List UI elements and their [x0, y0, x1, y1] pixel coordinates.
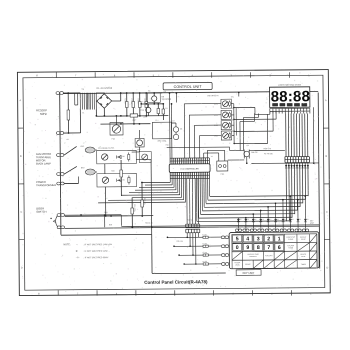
svg-text:C: C: [326, 211, 328, 214]
RY1 drive transistor box: [97, 150, 137, 164]
svg-text:R20: R20: [104, 212, 107, 214]
digit drive transistor TR2: [222, 112, 228, 118]
svg-text:R24 4.7k: R24 4.7k: [145, 222, 152, 224]
svg-text:1S: 1S: [277, 219, 279, 221]
digit line 1 to display pin: [234, 106, 255, 108]
svg-text:R10: R10: [166, 144, 169, 146]
segment resistor array R1-R9: [285, 156, 310, 162]
svg-text:LIGHT EMITTING DIODE: LIGHT EMITTING DIODE: [278, 84, 302, 86]
svg-text:IC1 CONTROLLER: IC1 CONTROLLER: [181, 169, 200, 171]
key sense row 3: [179, 254, 222, 256]
diode D25: [275, 218, 277, 223]
svg-text:TR2: TR2: [231, 108, 234, 110]
key resistor array two bands: [186, 224, 200, 228]
svg-text:R1~R9 220: R1~R9 220: [264, 153, 273, 155]
bridge rectifier D1-D4: [97, 94, 112, 109]
digit line 4 to display pin: [234, 142, 267, 144]
capacitor C2: [132, 93, 134, 116]
key digits row 1: 5 4 3 2 1: [233, 235, 242, 242]
wire bridge bottom output: [103, 108, 105, 116]
RY1 emitter to gnd rail: [104, 164, 106, 174]
svg-text:7: 7: [267, 245, 270, 251]
digit drive transistor TR3 box: [221, 121, 231, 130]
digit drive transistor TR1 box: [221, 99, 231, 108]
svg-text:→: →: [75, 243, 77, 246]
switch diode D6 box: [148, 93, 161, 103]
RY2 emitter to gnd: [105, 187, 107, 216]
varistor across AC line: [67, 93, 69, 133]
ceramic filter CF1: [217, 161, 228, 171]
resistor R2: [145, 93, 147, 116]
key row connector: [221, 263, 225, 266]
transistor TR4 box: [135, 138, 144, 147]
svg-text:: IF NOT SPECIFIED 50WV: : IF NOT SPECIFIED 50WV: [84, 257, 109, 259]
base resistor inside box: [229, 132, 231, 138]
svg-text:9: 9: [246, 245, 249, 251]
svg-text:C7: C7: [172, 120, 174, 122]
inner sheet border: [23, 75, 325, 290]
wire display right down: [312, 107, 314, 163]
svg-text:R 100: R 100: [203, 252, 207, 254]
svg-text:START: START: [245, 263, 250, 266]
wire RY2 terminal lower: [64, 182, 78, 184]
KEY UNIT label: [236, 270, 261, 276]
svg-text:R40~44: R40~44: [187, 219, 193, 221]
svg-text:ZD1: ZD1: [143, 116, 146, 118]
svg-text:D: D: [326, 266, 328, 269]
RY1 resistor in box: [128, 153, 130, 162]
power-on transistor TR8: [228, 159, 244, 161]
svg-text:: IF NOT SPECIFIED 1/2W: : IF NOT SPECIFIED 1/2W: [84, 251, 108, 253]
segment diode row below array: [285, 165, 287, 168]
svg-text:MINUTE: MINUTE: [300, 254, 306, 256]
svg-text:L1: L1: [155, 120, 157, 122]
osc caps C7 C8: [173, 127, 178, 132]
RY2 resistor in box: [128, 176, 130, 185]
svg-text:⊣⊢: ⊣⊢: [76, 255, 80, 259]
display pin row: [270, 108, 310, 111]
diode D27: [290, 218, 292, 223]
key row connector: [221, 236, 225, 239]
svg-text:8: 8: [257, 245, 260, 251]
key row resistor: [203, 236, 208, 238]
IC1 bottom pin hatch: [170, 172, 209, 179]
svg-text:C13 470µ: C13 470µ: [133, 204, 135, 212]
digit drive transistor TR1: [222, 101, 228, 107]
svg-text:COMP.STOP: COMP.STOP: [286, 237, 295, 239]
cap C4 near reset: [162, 104, 164, 120]
outer sheet border: [17, 70, 330, 296]
wire T1 primary bottom: [64, 132, 81, 134]
transistor box right of RY1: [139, 151, 151, 162]
svg-text:Control Panel Circuit(R-4A78): Control Panel Circuit(R-4A78): [144, 279, 208, 285]
RY1 protect diode: [117, 155, 122, 158]
svg-text:C2 16V: C2 16V: [130, 99, 132, 106]
wire TR8 to right boundary: [251, 162, 318, 165]
digit transistor collector rails: [233, 104, 235, 144]
svg-text:4: 4: [246, 236, 249, 242]
svg-text:TR1: TR1: [231, 96, 234, 98]
svg-text:50Hz: 50Hz: [40, 112, 47, 116]
svg-text:C3: C3: [164, 91, 166, 93]
scan speckle noise: [217, 77, 220, 80]
svg-text:R30 10k: R30 10k: [143, 198, 145, 205]
svg-text:1S: 1S: [262, 219, 264, 221]
key sense row 1: [167, 236, 221, 238]
switch diode D6: [152, 96, 157, 101]
dc rail top: [121, 92, 162, 94]
wires around D6: [153, 93, 155, 96]
key row connector: [221, 245, 225, 248]
svg-text:2: 2: [267, 236, 270, 242]
svg-text:RY1 DRIVE TR: RY1 DRIVE TR: [98, 148, 111, 150]
nested wires left of display: [239, 121, 241, 150]
svg-text:3: 3: [257, 236, 260, 242]
svg-text:R 100: R 100: [203, 261, 207, 263]
horizontal key scan lines: [210, 195, 308, 198]
svg-text:6: 6: [278, 245, 281, 251]
RY2 drive transistor: [102, 177, 108, 183]
control unit boundary bottom edge: [121, 225, 319, 227]
svg-text:CONTROL UNIT: CONTROL UNIT: [174, 85, 203, 89]
diode D21: [245, 218, 247, 223]
svg-text:PW ON: PW ON: [251, 152, 258, 154]
svg-text:POPCORN: POPCORN: [265, 255, 272, 257]
base resistor inside box: [229, 112, 231, 118]
relay RY2 contact: [64, 166, 77, 174]
oscillator block OSC: [152, 122, 171, 139]
display pins below ladder: [269, 111, 271, 113]
wire T1 secondary to bridge: [96, 92, 104, 94]
svg-text:RY2: RY2: [81, 167, 85, 169]
svg-text:DIG4: DIG4: [214, 104, 218, 106]
columns below array bending left into scan lines: [307, 163, 309, 196]
wire RY1 box right to key-unit drop: [136, 158, 151, 160]
svg-text:R 100: R 100: [202, 243, 206, 245]
svg-text:C: C: [20, 211, 22, 214]
cap C5: [157, 104, 159, 116]
digit drive transistor TR2 box: [221, 110, 231, 119]
svg-text:D8: D8: [122, 156, 124, 158]
wire coil to RY1 driver box: [95, 149, 97, 151]
border zone tick marks bottom: [57, 290, 59, 295]
IC1 leftmost top pins long verticals: [168, 93, 171, 158]
wire lower door switch long: [65, 226, 320, 228]
keypad connector ovals row: [235, 229, 238, 232]
svg-text:1S: 1S: [247, 219, 249, 221]
svg-text:COOKING TIME/: COOKING TIME/: [247, 254, 259, 256]
key sense row 2: [174, 245, 222, 247]
wire coil to RY2 driver box: [95, 171, 97, 173]
svg-text:C0: C0: [67, 139, 69, 141]
svg-text:KITCHEN: KITCHEN: [287, 245, 294, 247]
svg-text:TRANSFORMER: TRANSFORMER: [36, 183, 56, 187]
key row resistor: [203, 254, 208, 256]
IC1 bottom left pins fan going left: [169, 179, 171, 183]
svg-text:C4: C4: [165, 108, 167, 110]
rail above segment array: [249, 149, 285, 151]
base resistor inside box: [229, 122, 231, 128]
border zone tick marks left/right: [18, 127, 23, 129]
power sw transistor TR7 box: [110, 122, 123, 135]
svg-text:OVEN LAMP: OVEN LAMP: [36, 161, 51, 165]
svg-text:RY1: RY1: [81, 146, 85, 148]
relay RY1 coil: [85, 147, 95, 153]
svg-text:F1: F1: [82, 112, 84, 114]
svg-text:D: D: [21, 266, 23, 269]
svg-text:0: 0: [236, 245, 239, 251]
power sw transistor TR7: [112, 125, 120, 133]
svg-text:R21: R21: [111, 147, 114, 149]
svg-text:C8: C8: [180, 128, 182, 130]
key digits row 2: 0 9 8 7 6: [233, 244, 242, 251]
indicator labels row inside display: [272, 103, 277, 106]
svg-text:1S: 1S: [269, 219, 271, 221]
CONTROL UNIT label box: [163, 82, 212, 89]
svg-text:D9: D9: [122, 179, 124, 181]
svg-text:D16: D16: [109, 224, 112, 226]
diode D22: [252, 218, 254, 223]
key row1 fn cells: [296, 234, 298, 243]
svg-text:DIG1: DIG1: [214, 135, 218, 137]
svg-text:DIG DRIVE TR: DIG DRIVE TR: [207, 95, 219, 97]
connector AC line return terminal: [56, 132, 60, 135]
dc rail mid: [96, 115, 168, 118]
long vertical to bottom wire: [150, 159, 153, 234]
connector power transformer terminal: [57, 182, 61, 185]
nested wires IC top pins to digit transistors: [183, 104, 185, 158]
svg-text:F2G: F2G: [112, 138, 116, 140]
border zone tick marks top: [55, 72, 57, 77]
IC1 top pin hatch: [170, 158, 209, 165]
door switch wires: [65, 214, 122, 216]
svg-text:KEY UNIT: KEY UNIT: [243, 271, 255, 275]
zener D5: [139, 93, 141, 116]
svg-text:1S: 1S: [299, 219, 301, 221]
relay RY2 coil: [85, 169, 95, 175]
R30 resistor: [141, 182, 143, 215]
svg-text:X1: X1: [211, 156, 213, 158]
svg-text:5: 5: [236, 236, 239, 242]
digit line 2 to display pin: [234, 118, 276, 120]
reset transistor TR5: [146, 107, 151, 112]
svg-text:1S: 1S: [240, 219, 242, 221]
connector AC line terminal: [56, 92, 60, 95]
relay RY1 contact: [64, 146, 77, 155]
digit line 3 to display pin: [234, 130, 273, 132]
IC2 voltage regulator box: [130, 114, 137, 117]
diode D20: [237, 218, 239, 223]
key row 3: [232, 251, 243, 260]
connector relay RY2 output terminal: [57, 173, 61, 176]
svg-text:DIG3: DIG3: [214, 115, 218, 117]
IC1 bottom right pins to scan lines: [209, 178, 211, 196]
vertical cap between boxes and gnd: [120, 160, 122, 196]
svg-text:D1~D4 S2VB10: D1~D4 S2VB10: [97, 88, 113, 90]
key grid row lines: [232, 241, 317, 244]
IC right top pins to CF1: [203, 153, 205, 158]
diode D28: [297, 218, 299, 223]
svg-text:: IF NOT SPECIFIED 1/4W ±5%: : IF NOT SPECIFIED 1/4W ±5%: [84, 244, 113, 246]
gnd rail y216: [65, 215, 154, 218]
svg-text:TR9: TR9: [231, 119, 234, 121]
RY1 drive transistor: [102, 154, 108, 160]
key sense row 4: [184, 263, 222, 265]
svg-text:1S: 1S: [292, 219, 294, 221]
svg-text:R35 10k: R35 10k: [176, 241, 182, 243]
key row 4: [242, 260, 244, 268]
svg-text:R28 4.7k: R28 4.7k: [264, 148, 271, 150]
svg-text:OSC COIL: OSC COIL: [158, 141, 167, 143]
diode D23: [260, 218, 262, 223]
display outer box: [270, 87, 310, 108]
svg-text:R4: R4: [148, 90, 150, 92]
short verticals from top bus: [175, 93, 177, 102]
svg-text:R 100: R 100: [202, 234, 206, 236]
svg-text:DEFROST: DEFROST: [250, 256, 257, 258]
IC1 bottom middle pins down to key resistors: [186, 178, 188, 224]
wire bridge right output: [112, 100, 121, 102]
door switch arc: [56, 216, 58, 227]
svg-text:TR10: TR10: [231, 131, 235, 133]
IC1 controller body: [169, 164, 210, 173]
svg-text:R23: R23: [111, 170, 114, 172]
diode D24: [267, 218, 269, 223]
diode D26: [282, 218, 284, 223]
rail below regulator: [100, 123, 150, 125]
key row connector: [221, 254, 225, 257]
key row resistor: [203, 263, 208, 265]
RY2 drive transistor box: [97, 173, 137, 187]
key resistor columns to sense rows: [186, 233, 188, 237]
C13 electrolytic: [131, 197, 133, 227]
svg-text:TR5: TR5: [140, 110, 143, 112]
key grid outline: [232, 234, 317, 269]
digit drive transistor TR3: [223, 122, 229, 128]
connector door switch terminal lower: [57, 226, 61, 229]
svg-text:88:88: 88:88: [271, 88, 311, 105]
control unit boundary right edge: [318, 92, 320, 268]
caps across AC before transformer: [74, 93, 76, 105]
connector relay RY1 output terminal: [57, 154, 61, 157]
svg-text:D5 16V: D5 16V: [137, 99, 139, 106]
bottom wire to key unit: [61, 233, 152, 236]
svg-text:TIMER: TIMER: [301, 264, 307, 266]
digit drive transistor TR4 box: [221, 131, 231, 140]
svg-text:SWITCH: SWITCH: [36, 210, 46, 214]
svg-text:PLUS: PLUS: [301, 256, 305, 258]
capacitor C1: [126, 93, 128, 116]
display segment columns down to resistor array: [285, 114, 287, 157]
RY2 protect diode: [117, 179, 122, 182]
key unit outer box: [229, 232, 319, 269]
wire across to PW-ON transistor: [167, 146, 230, 149]
svg-text:DIG2: DIG2: [214, 125, 218, 127]
wire bridge top to AC rail: [103, 93, 105, 94]
svg-text:1S: 1S: [307, 219, 309, 221]
svg-text:NOTE:: NOTE:: [64, 244, 71, 246]
svg-text:1S: 1S: [255, 219, 257, 221]
digit drive transistor TR4: [223, 133, 229, 139]
key row resistor: [203, 245, 208, 247]
keypad column verticals: [237, 218, 239, 221]
diode D29: [304, 218, 306, 223]
wire AC top rail: [64, 92, 81, 94]
control unit boundary top edge: [60, 91, 318, 93]
base resistor inside box: [229, 100, 231, 106]
svg-text:TR3: TR3: [137, 149, 140, 151]
svg-text:1S: 1S: [284, 219, 286, 221]
control unit boundary left edge: [60, 93, 61, 235]
svg-text:POWER: POWER: [235, 262, 242, 264]
connector door switch terminal upper: [57, 214, 61, 217]
